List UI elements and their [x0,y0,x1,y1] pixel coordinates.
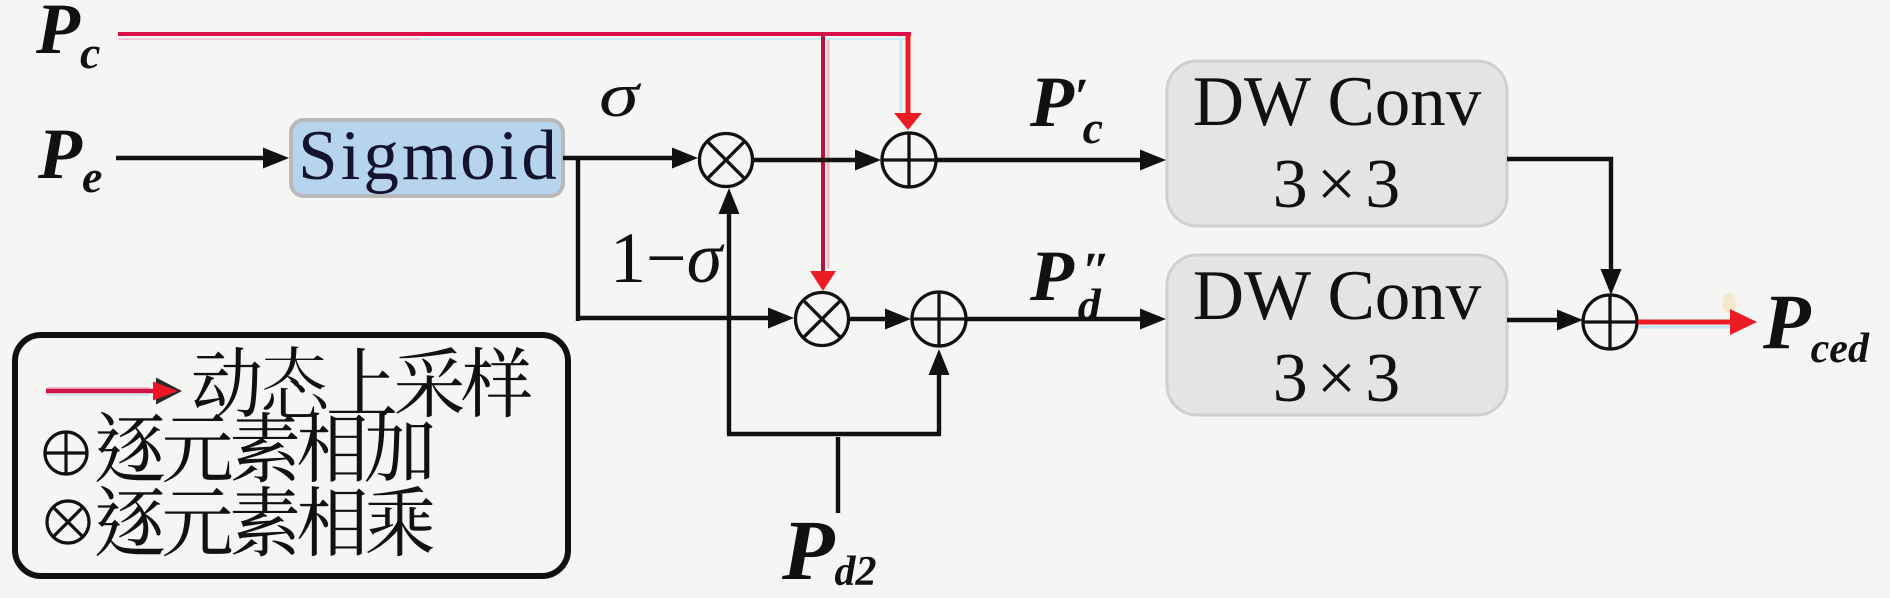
wire upper multiply to add [752,158,858,162]
wire red vertical to upper add [900,40,903,112]
wire horizontal bottom bus [727,432,941,436]
wire lower add to DW Conv 2 [966,317,1143,321]
svg-text:DW Conv: DW Conv [1193,63,1482,141]
wire upper add to DW Conv 1 [936,158,1143,162]
wire red top from P_c [118,38,420,40]
multiply node lower [796,293,849,346]
add node upper [882,133,936,187]
svg-text:DW Conv: DW Conv [1193,257,1482,335]
wire vertical into upper multiply from below [727,210,731,434]
Sigmoid box [291,120,563,196]
wire P_e to Sigmoid [116,156,265,160]
add node final [1583,295,1637,349]
wire Sigmoid to upper multiply [563,156,675,160]
wire DW Conv 1 output [1507,157,1613,161]
node P_d2 stem [836,437,840,513]
legend multiply symbol [47,501,89,543]
wire red vertical to lower multiply [827,40,830,268]
wire lower multiply to lower add [848,317,888,321]
DW Conv 3x3 box bottom [1167,255,1507,415]
svg-text:3×3: 3×3 [1273,340,1409,417]
wire red output arrow [1639,326,1745,329]
legend text dynamic upsample [194,346,531,417]
wire vertical into lower add from below [937,374,941,434]
svg-text:3×3: 3×3 [1273,146,1409,223]
legend text elementwise add [96,412,432,482]
add node lower [912,292,966,346]
legend box [15,335,568,576]
svg-text:1−σ: 1−σ [610,218,725,298]
legend red arrow [47,387,150,389]
DW Conv 3x3 box top [1167,61,1507,226]
wire DW Conv 2 output [1507,318,1560,322]
wire 1-sigma branch [576,156,580,321]
multiply node upper [700,134,753,187]
legend add symbol [45,432,87,474]
svg-text:P″d: P″d [1029,236,1111,330]
svg-text:σ: σ [599,61,642,130]
legend text elementwise multiply [96,486,432,556]
svg-text:Sigmoid: Sigmoid [298,117,560,195]
